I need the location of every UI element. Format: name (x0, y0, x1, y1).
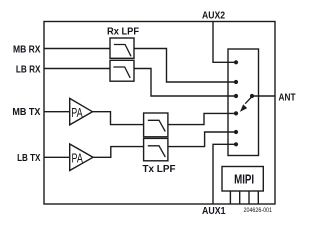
wire PA1 output to Tx LPF1 (92, 112, 143, 125)
node throw 3 (LB RX) (234, 94, 238, 98)
svg-text:PA: PA (72, 152, 84, 166)
wire Tx LPF1 output to switch throw 4 (168, 113, 236, 124)
wire MB RX input (44, 48, 110, 50)
svg-text:MB RX: MB RX (13, 44, 41, 56)
wire ANT output (252, 95, 275, 97)
node throw 4 (MB TX) (234, 111, 238, 115)
node ANT pole (250, 94, 254, 98)
svg-text:PA: PA (71, 106, 83, 120)
MIPI pin 3 (248, 191, 250, 204)
filter Tx LPF box 1 (MB TX) (144, 113, 168, 137)
wire LB TX input (44, 156, 70, 158)
svg-text:Tx LPF: Tx LPF (143, 163, 177, 175)
wire AUX2 to switch throw 1 (213, 22, 236, 63)
svg-text:MB TX: MB TX (12, 106, 40, 118)
svg-text:MIPI: MIPI (234, 173, 254, 187)
node throw 5 (LB TX) (234, 130, 238, 134)
node throw 1 (AUX2) (234, 60, 238, 64)
wire Tx LPF2 output to switch throw 5 (168, 132, 236, 147)
filter Tx LPF glyph 2 (148, 146, 166, 157)
switch box (228, 49, 259, 156)
MIPI pin 2 (239, 191, 241, 204)
filter Rx LPF glyph 2 (113, 67, 130, 78)
svg-text:AUX1: AUX1 (202, 205, 226, 217)
amplifier PA1 (MB TX) (70, 98, 93, 125)
MIPI pin 4 (257, 191, 259, 204)
outer module box (44, 22, 275, 205)
filter Rx LPF glyph 1 (114, 45, 131, 57)
filter Rx LPF box 1 (MB RX) (110, 38, 134, 58)
amplifier PA2 (LB TX) (70, 144, 93, 171)
MIPI box (222, 167, 263, 192)
svg-text:LB TX: LB TX (17, 152, 40, 164)
svg-text:ANT: ANT (279, 92, 296, 104)
wire MB TX input (44, 111, 70, 113)
svg-text:AUX2: AUX2 (202, 10, 225, 22)
wire Rx LPF1 output to switch throw 2 (134, 49, 236, 83)
filter Rx LPF box 2 (LB RX) (110, 60, 134, 81)
wire AUX1 to switch throw 6 (213, 144, 236, 204)
filter Tx LPF box 2 (LB TX) (144, 138, 168, 160)
svg-text:204626-001: 204626-001 (244, 208, 273, 214)
switch arm with arrow (241, 97, 252, 111)
svg-text:LB RX: LB RX (16, 64, 41, 76)
node throw 6 (AUX1) (234, 142, 238, 146)
svg-text:Rx LPF: Rx LPF (107, 26, 140, 38)
wire LB RX input (44, 68, 110, 70)
MIPI pin 1 (229, 191, 231, 204)
wire PA2 output to Tx LPF2 (93, 147, 144, 158)
filter Tx LPF glyph 1 (148, 120, 166, 131)
wire Rx LPF2 output to switch throw 3 (134, 69, 236, 97)
node throw 2 (MB RX) (234, 80, 238, 84)
